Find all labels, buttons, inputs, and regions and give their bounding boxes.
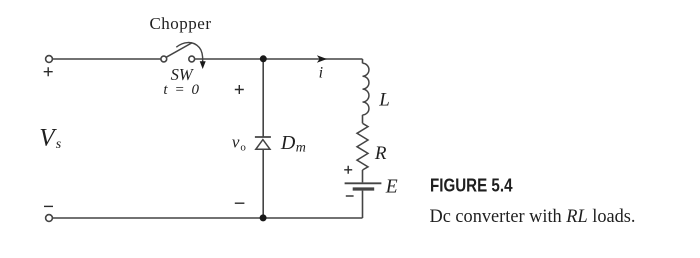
- svg-text:L: L: [378, 90, 390, 111]
- svg-text:R: R: [374, 143, 387, 164]
- svg-text:m: m: [296, 141, 306, 156]
- svg-text:s: s: [56, 137, 62, 152]
- svg-text:i: i: [319, 64, 323, 81]
- svg-text:Dc converter with RL loads.: Dc converter with RL loads.: [430, 206, 636, 227]
- svg-text:E: E: [385, 177, 398, 198]
- svg-text:v: v: [232, 133, 240, 152]
- svg-text:o: o: [240, 141, 246, 153]
- svg-text:t = 0: t = 0: [163, 82, 199, 98]
- svg-text:FIGURE 5.4: FIGURE 5.4: [430, 176, 513, 196]
- svg-text:D: D: [280, 132, 296, 154]
- svg-text:Chopper: Chopper: [149, 14, 211, 33]
- svg-text:SW: SW: [171, 65, 194, 84]
